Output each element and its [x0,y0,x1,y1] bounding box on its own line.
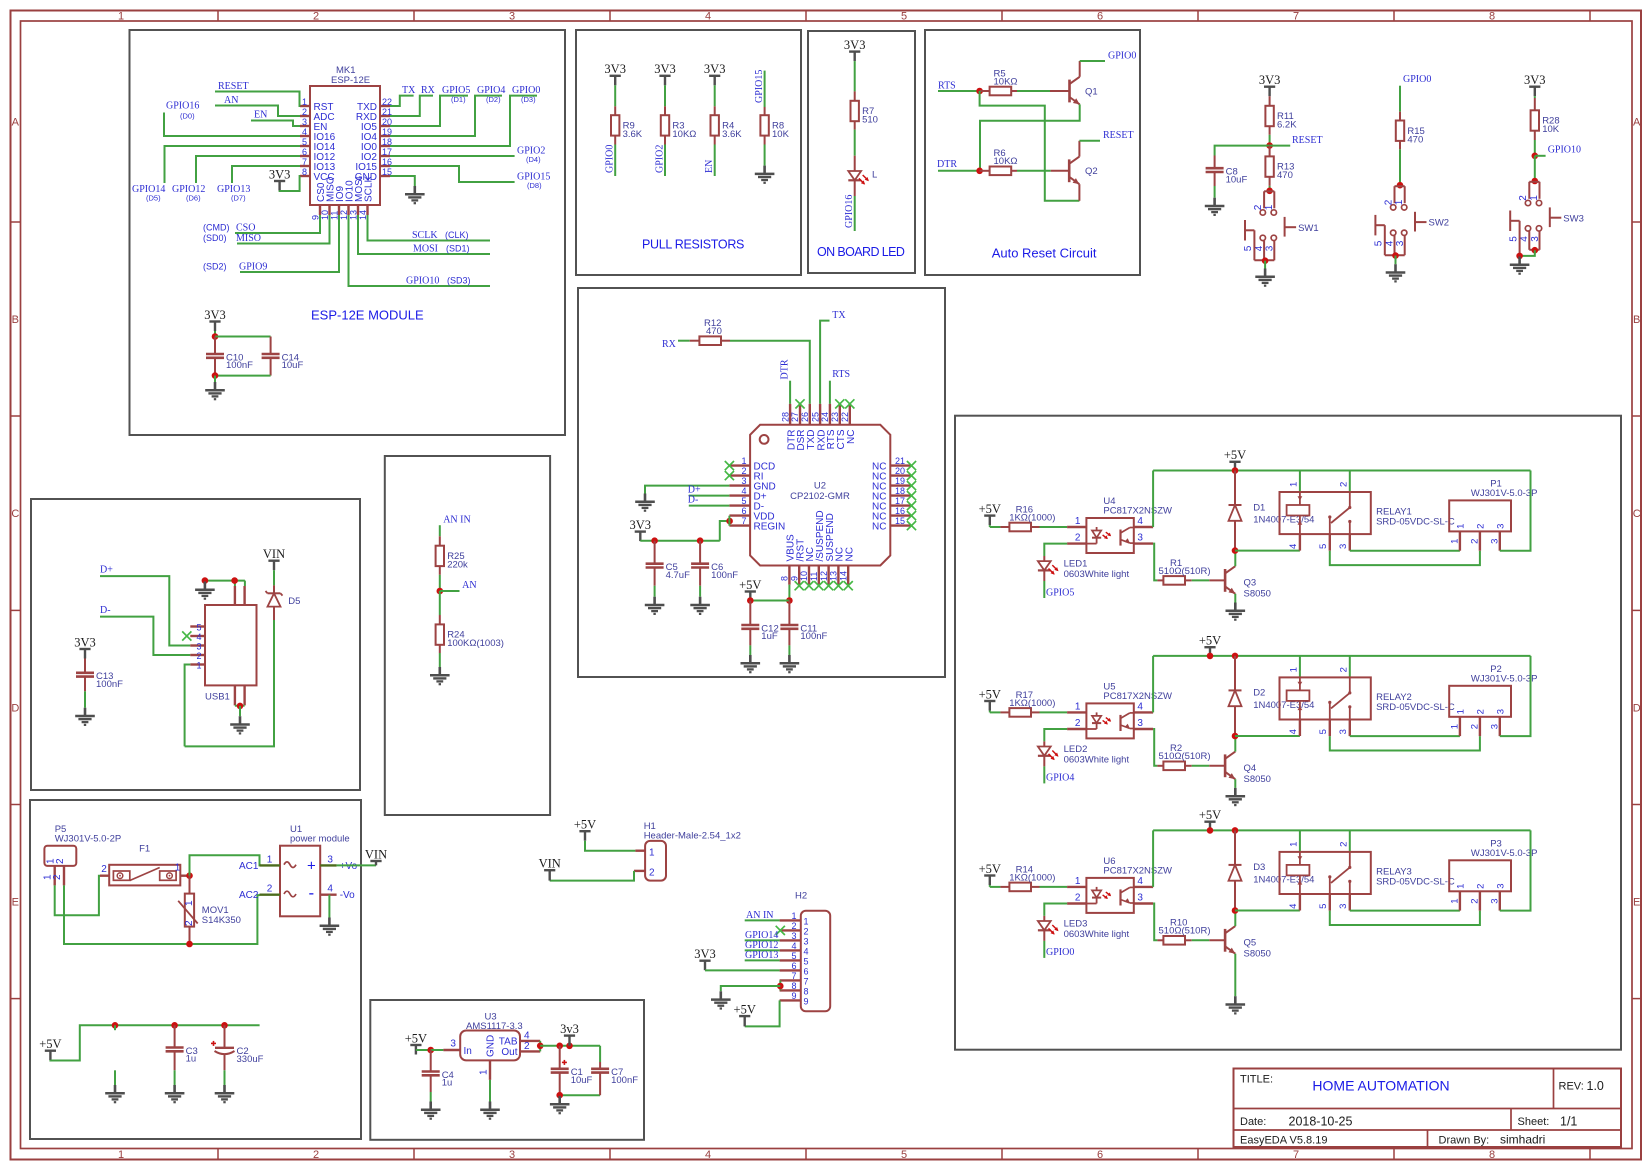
power flag VIN [365,847,387,865]
svg-text:0603White light: 0603White light [1064,755,1130,766]
title block [1234,1069,1622,1148]
net label GPIO15 [754,70,765,103]
wire +5V rail [1153,829,1530,831]
wire [440,590,460,592]
svg-text:7: 7 [302,157,307,167]
svg-text:10K: 10K [772,129,790,140]
wire [1520,250,1535,256]
net label GPIO13 [745,950,778,961]
ground [105,1085,125,1102]
svg-text:GPIO10: GPIO10 [1548,145,1581,156]
ground [230,716,250,733]
wire [1500,830,1531,910]
svg-text:Out: Out [501,1047,517,1058]
svg-text:10KΩ: 10KΩ [994,76,1018,87]
net label GPIO4 (D2) [477,85,505,104]
ground [1386,264,1406,281]
net label RX [662,339,677,350]
svg-text:1KΩ(1000): 1KΩ(1000) [1009,872,1055,883]
wire [689,505,730,507]
net label GPIO2 [654,145,665,173]
svg-text:3V3: 3V3 [74,635,96,649]
svg-text:1: 1 [1289,842,1300,847]
wire [185,665,191,747]
svg-text:7: 7 [791,971,796,981]
svg-text:SW2: SW2 [1429,218,1450,229]
wire [678,340,690,342]
svg-text:4.7uF: 4.7uF [666,570,690,581]
svg-text:1: 1 [184,900,195,906]
wire [1080,60,1105,62]
wire [390,96,468,126]
resistor R7 [851,91,878,129]
net label (SD2) GPIO9 [203,262,267,273]
svg-text:5: 5 [791,951,796,961]
svg-text:NC: NC [846,430,857,444]
svg-text:GPIO5: GPIO5 [1046,587,1074,598]
svg-text:470: 470 [706,326,722,337]
junction [186,872,193,879]
svg-text:8: 8 [1489,11,1495,23]
svg-text:510Ω(510R): 510Ω(510R) [1159,751,1211,762]
wire [1330,911,1480,925]
junction [427,1047,434,1054]
wire [980,104,1080,170]
power flag 3V3 [1259,73,1281,96]
svg-text:B: B [1633,314,1640,326]
wire [980,91,1080,201]
svg-text:3: 3 [327,854,333,865]
svg-text:WJ301V-5.0-3P: WJ301V-5.0-3P [1471,673,1538,684]
svg-text:GPIO13: GPIO13 [745,950,778,961]
svg-text:6: 6 [302,147,307,157]
svg-text:GPIO16: GPIO16 [844,195,855,228]
wire [390,96,414,106]
net label EN [254,110,267,121]
svg-text:510: 510 [862,115,878,126]
svg-text:3V3: 3V3 [704,62,726,76]
capacitor C3 [166,1025,198,1070]
svg-text:4: 4 [741,486,746,496]
wire [1350,735,1460,737]
svg-text:2: 2 [649,868,655,879]
wire [1500,471,1531,551]
resistor R16 [1000,504,1055,531]
wire [237,215,330,244]
svg-text:+5V: +5V [39,1037,61,1051]
svg-text:RX: RX [662,339,677,350]
svg-text:4: 4 [1288,904,1299,909]
svg-text:SCLK: SCLK [412,230,438,241]
svg-text:CP2102-GMR: CP2102-GMR [790,491,850,502]
svg-text:(SD0): (SD0) [203,233,227,243]
power flag +5V [574,818,596,841]
wire [1264,261,1266,269]
wire [749,645,751,655]
svg-text:21: 21 [895,456,905,466]
net label AN IN [746,910,774,921]
section title Auto Reset Circuit [992,246,1097,261]
svg-text:3: 3 [196,642,201,652]
wire [1234,779,1236,788]
junction [186,941,193,948]
wire [1215,146,1270,156]
wire [235,705,245,707]
net label RX [421,85,436,96]
power flag +5V [739,578,761,601]
wire [585,841,635,851]
wire [1044,904,1067,916]
junction [976,168,983,175]
power flag +5V [979,862,1001,885]
svg-text:17: 17 [895,496,905,506]
power flag VIN [539,857,561,881]
svg-text:1: 1 [1075,876,1081,887]
svg-text:2: 2 [1476,524,1487,529]
diode D3 [1229,830,1315,910]
LED L [848,156,877,196]
junction [1207,827,1214,834]
svg-text:9: 9 [791,991,796,1001]
wire [1017,90,1050,92]
svg-text:2: 2 [1383,199,1394,205]
wire [337,864,376,866]
junction [1266,188,1273,195]
wire [100,576,190,645]
svg-text:DTR: DTR [780,359,791,379]
power flag 3V3 [604,62,626,85]
varistor MOV1 [178,876,241,944]
svg-text:Q1: Q1 [1085,87,1098,98]
svg-text:S8050: S8050 [1244,774,1271,785]
wire [699,586,701,597]
zener diode D5 [266,585,301,620]
wire [938,90,980,92]
wire [1040,886,1068,888]
svg-text:5: 5 [901,11,907,23]
svg-text:3V3: 3V3 [654,62,676,76]
wire [990,525,1001,527]
wire [1209,939,1225,941]
wire [1269,186,1271,191]
relay RELAY1 [1280,482,1455,549]
wire [390,96,433,116]
wire [232,166,300,183]
svg-text:3: 3 [302,117,307,127]
svg-text:D+: D+ [100,564,113,575]
svg-text:5: 5 [1243,245,1254,251]
svg-text:-Vo: -Vo [340,890,355,901]
wire [1299,830,1301,852]
svg-text:(D3): (D3) [521,95,536,104]
svg-text:E: E [1633,897,1640,909]
svg-text:2: 2 [302,107,307,117]
svg-text:Q2: Q2 [1085,166,1098,177]
svg-text:3: 3 [1490,539,1501,544]
wire [1078,184,1080,201]
svg-text:REGIN: REGIN [754,522,786,533]
wire [1349,471,1351,493]
svg-text:2: 2 [524,1041,530,1052]
connector P2 [1449,664,1537,736]
svg-text:7: 7 [804,976,809,986]
svg-text:2: 2 [1470,724,1481,729]
wire [1209,765,1225,767]
wire [55,876,100,916]
wire [1329,894,1331,911]
svg-text:2: 2 [1075,533,1081,544]
net label GPIO12 (D6) [172,184,205,203]
wire [560,1094,600,1096]
section box ESP-12E MODULE [130,30,566,435]
wire [745,939,780,941]
svg-text:10KΩ: 10KΩ [672,129,696,140]
power flag +5V [979,502,1001,525]
svg-text:5: 5 [741,496,746,506]
svg-text:6: 6 [1097,1149,1103,1161]
wire [745,1000,780,1026]
svg-text:2: 2 [52,874,63,880]
svg-text:MISO: MISO [236,233,261,244]
ground [320,918,340,935]
svg-text:GPIO16: GPIO16 [166,101,199,112]
net label RESET [1292,135,1323,146]
svg-text:1.0: 1.0 [1587,1079,1604,1093]
net label TX [832,310,846,321]
power flag +5V [979,687,1001,710]
net label AN [462,580,476,591]
wire [416,1049,431,1051]
svg-text:L: L [872,170,877,181]
svg-text:3V3: 3V3 [844,38,866,52]
svg-text:RESET: RESET [1292,135,1323,146]
wire [1349,656,1351,678]
net label (SD0) MISO [203,233,261,244]
resistor R28 [1531,98,1560,140]
transistor Q5 [1225,926,1271,959]
net label TX [402,85,416,96]
svg-text:3: 3 [1496,884,1507,889]
svg-text:10uF: 10uF [1226,174,1248,185]
svg-text:(CLK): (CLK) [445,230,469,240]
svg-text:(D6): (D6) [186,194,201,203]
wire [328,895,330,918]
wire [990,711,1001,713]
net label (CMD) CSO [203,223,255,234]
svg-text:9: 9 [804,996,809,1006]
svg-text:+5V: +5V [1199,808,1221,822]
resistor R9 [611,106,643,144]
svg-text:2: 2 [1339,667,1350,672]
svg-text:1: 1 [1075,516,1081,527]
svg-text:WJ301V-5.0-3P: WJ301V-5.0-3P [1471,488,1538,499]
junction [1262,257,1269,264]
svg-text:10uF: 10uF [282,360,304,371]
svg-text:F1: F1 [139,843,150,854]
svg-text:510Ω(510R): 510Ω(510R) [1159,926,1211,937]
net label GPIO0 [1046,947,1074,958]
svg-text:D: D [1633,703,1641,715]
LED LED1 [1038,556,1130,581]
wire [84,691,86,707]
svg-text:TITLE:: TITLE: [1240,1074,1273,1086]
wire [1235,910,1300,912]
svg-text:10KΩ: 10KΩ [994,156,1018,167]
wire [1192,579,1210,581]
wire [664,85,666,106]
wire [1152,656,1154,713]
svg-text:3: 3 [1496,524,1507,529]
wire [539,1041,541,1052]
svg-text:3: 3 [509,1149,515,1161]
wire [745,919,780,921]
resistor R15 [1396,112,1425,150]
svg-text:5: 5 [1374,240,1385,246]
ground [635,494,655,511]
svg-text:6: 6 [791,961,796,971]
net label GPIO12 [745,940,778,951]
svg-text:power module: power module [290,834,350,845]
svg-text:(D5): (D5) [146,194,161,203]
svg-text:RTS: RTS [938,81,956,92]
ground [195,582,215,599]
ground [430,667,450,684]
svg-text:330uF: 330uF [237,1054,264,1065]
svg-text:27: 27 [790,412,800,422]
svg-text:3V3: 3V3 [1524,73,1546,87]
svg-text:2: 2 [1476,709,1487,714]
svg-text:0603White light: 0603White light [1064,929,1130,940]
svg-text:1: 1 [649,847,655,858]
junction [566,1043,573,1050]
wire [174,1070,176,1085]
svg-text:19: 19 [895,476,905,486]
svg-text:100KΩ(1003): 100KΩ(1003) [447,638,504,649]
switch SW3 [1508,182,1584,256]
svg-text:7: 7 [1293,11,1299,23]
svg-text:3: 3 [1137,533,1143,544]
wire [1270,145,1291,147]
net label GPIO0 [1108,50,1136,61]
svg-text:NC: NC [844,547,855,561]
svg-text:0603White light: 0603White light [1064,569,1130,580]
svg-text:1: 1 [1264,204,1275,210]
svg-text:EN: EN [254,110,267,121]
svg-text:5: 5 [804,956,809,966]
svg-text:ESP-12E: ESP-12E [331,75,370,86]
svg-text:1: 1 [196,661,201,671]
wire [1043,581,1045,598]
capacitor C14 [262,337,304,376]
wire [214,331,216,337]
svg-text:2: 2 [1470,539,1481,544]
power flag 3V3 [630,518,652,541]
optocoupler U6 [1067,856,1172,913]
svg-text:D5: D5 [288,596,300,607]
junction [786,597,793,604]
wire +5V rail [1153,470,1530,472]
svg-text:3: 3 [1490,724,1501,729]
svg-text:EN: EN [704,160,715,173]
wire [1235,735,1300,737]
svg-text:5: 5 [1318,544,1329,549]
svg-text:1: 1 [1289,482,1300,487]
svg-text:MOSI: MOSI [413,244,438,255]
net label GPIO15 (D8) [517,171,550,190]
wire [1234,911,1236,927]
wire [720,521,730,541]
net label RTS [832,369,850,380]
optocoupler U5 [1067,681,1172,738]
wire [196,156,300,183]
wire [764,71,766,107]
wire [1534,140,1536,156]
svg-text:WJ301V-5.0-3P: WJ301V-5.0-3P [1471,848,1538,859]
wire [1299,894,1301,911]
svg-text:S8050: S8050 [1244,948,1271,959]
diode D1 [1229,471,1315,551]
wire [1329,534,1331,551]
svg-text:1: 1 [1529,195,1540,201]
svg-text:D: D [11,703,19,715]
svg-text:2: 2 [1470,899,1481,904]
power flag 3V3 [654,62,676,85]
wire [1299,720,1301,737]
svg-text:1u: 1u [442,1078,453,1089]
svg-text:1: 1 [741,456,746,466]
svg-text:VIN: VIN [539,857,561,871]
svg-text:100nF: 100nF [611,1075,638,1086]
svg-text:3V3: 3V3 [694,947,716,961]
svg-text:1: 1 [1456,884,1467,889]
svg-text:3: 3 [509,11,515,23]
ground [1226,996,1246,1013]
section box PULL RESISTORS [576,30,801,275]
wire [439,575,441,591]
resistor R1 [1157,558,1210,585]
ground [480,1102,500,1119]
wire [390,166,515,182]
wire [1152,830,1154,887]
net label D- [100,605,111,616]
svg-text:1: 1 [1456,524,1467,529]
ground [165,1085,185,1102]
wire [1330,736,1480,750]
resistor R13 [1265,146,1294,186]
net label GPIO0 [605,145,616,173]
svg-text:GPIO0: GPIO0 [1046,947,1074,958]
wire [1399,86,1401,112]
svg-text:23: 23 [830,412,840,422]
svg-text:SRD-05VDC-SL-C: SRD-05VDC-SL-C [1376,517,1455,528]
svg-text:AN IN: AN IN [746,910,774,921]
junction [1516,253,1523,260]
junction [171,1022,178,1029]
power flag 3V3 [74,635,96,658]
svg-text:1: 1 [1450,899,1461,904]
svg-text:+: + [307,858,316,875]
junction [1532,153,1539,160]
svg-text:SRD-05VDC-SL-C: SRD-05VDC-SL-C [1376,876,1455,887]
wire [1234,954,1236,997]
power flag +5V [1199,808,1221,831]
resistor R2 [1157,743,1210,770]
junction [202,577,209,584]
resistor R25 [436,536,468,575]
net label GPIO10 [1548,145,1581,156]
net label MOSI (SD1) [413,244,470,255]
net label GPIO2 (D4) [517,145,545,163]
